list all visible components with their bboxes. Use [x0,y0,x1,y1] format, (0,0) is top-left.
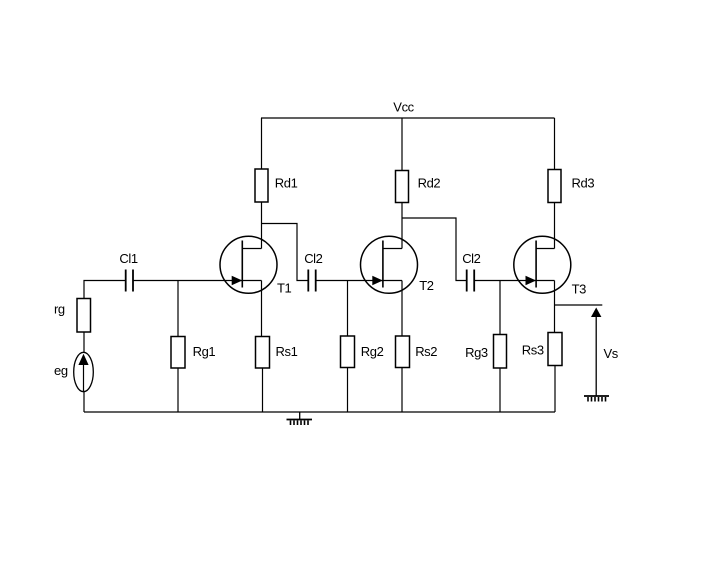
svg-text:eg: eg [54,363,68,378]
label Vs [604,346,619,361]
wire Rg1 top [177,281,179,337]
label Rg2 [361,344,384,359]
label Rd1 [275,176,298,191]
wire Cl2 to T3 gate [474,280,536,282]
wire Rd2 top [401,118,403,171]
resistor Rg3 [494,335,507,369]
resistor Rs3 [548,333,562,366]
svg-text:Rg1: Rg1 [193,344,216,359]
ground output [584,396,609,402]
label eg [54,363,68,378]
svg-text:Rs2: Rs2 [415,344,437,359]
svg-text:Rs1: Rs1 [276,344,298,359]
wire Rg2 top [347,281,349,337]
wire Rd1 top [261,118,263,170]
svg-text:Rd1: Rd1 [275,176,298,191]
label Rd2 [418,176,441,191]
wire Rd3 to T3 drain [554,203,556,249]
wire T2 drain jog to Cl2 [402,218,467,281]
svg-text:Vs: Vs [604,346,619,361]
svg-text:T2: T2 [419,278,434,293]
label Cl2 first [304,251,322,266]
wire Rg3 top [499,281,501,335]
wire Rs3 bottom [554,366,556,413]
wire Rd1 to T1 drain [261,202,263,249]
label Cl1 [119,251,137,266]
wire Rd3 top [554,118,556,170]
label Rs3 [522,343,544,358]
svg-text:T3: T3 [572,282,587,297]
svg-text:Rd3: Rd3 [572,176,595,191]
wire T1 drain jog to Cl2 [262,224,309,281]
capacitor Cl1 [126,270,133,292]
transistor T1 [220,236,277,293]
wire Cl2 to T2 gate [316,280,383,282]
svg-text:Rs3: Rs3 [522,343,544,358]
svg-text:rg: rg [54,302,65,317]
wire Cl1 to T1 gate [133,280,242,282]
svg-text:Rg2: Rg2 [361,344,384,359]
wire output tap [555,304,603,306]
label Rs1 [276,344,298,359]
wire T1 source to Rs1 [261,281,263,337]
svg-text:Cl2: Cl2 [462,251,480,266]
svg-text:Rd2: Rd2 [418,176,441,191]
svg-text:T1: T1 [277,281,292,296]
label T2 [419,278,434,293]
resistor Rs2 [396,336,410,368]
resistor Rg1 [171,337,185,369]
resistor Rs1 [256,337,270,369]
wire eg to rail [83,392,85,412]
resistor Rd2 [396,171,409,203]
ground rail [287,412,313,425]
wire Rg1 bottom [177,368,179,412]
transistor T3 [514,236,571,293]
resistor Rg2 [341,336,355,368]
source eg [74,352,94,391]
label Rg1 [193,344,216,359]
capacitor Cl2 first [308,270,315,292]
svg-text:Rg3: Rg3 [465,345,488,360]
wire bottom rail [84,411,555,413]
svg-text:Vcc: Vcc [393,99,414,114]
resistor Rd3 [548,170,561,203]
wire input node to Cl1 [84,281,126,299]
wire Vcc rail [261,117,555,119]
label Rs2 [415,344,437,359]
label Rg3 [465,345,488,360]
resistor Rd1 [255,169,268,202]
label Cl2 second [462,251,480,266]
wire T2 source to Rs2 [401,281,403,337]
transistor T2 [361,236,418,293]
wire Rs2 bottom [401,368,403,413]
svg-text:Cl1: Cl1 [119,251,137,266]
wire Rs1 bottom [262,368,264,412]
wire Rg3 bottom [499,368,501,412]
node Vcc [393,99,414,114]
capacitor Cl2 second [467,270,475,292]
label T3 [572,282,587,297]
wire T3 source to Rs3 [554,281,556,333]
label Rd3 [572,176,595,191]
label T1 [277,281,292,296]
wire rg to eg [83,332,85,353]
wire Rg2 bottom [347,368,349,413]
arrow Vs [591,308,601,397]
resistor rg [77,299,91,333]
wire Rd2 to T2 drain [401,203,403,249]
svg-text:Cl2: Cl2 [304,251,322,266]
label rg [54,302,65,317]
